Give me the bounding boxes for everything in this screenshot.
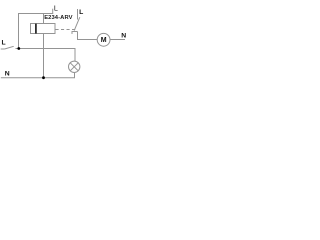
svg-text:E234-ARV: E234-ARV bbox=[44, 15, 72, 21]
background bbox=[0, 0, 127, 85]
svg-text:L: L bbox=[2, 39, 6, 46]
lamp cross bbox=[70, 63, 78, 71]
svg-text:N: N bbox=[121, 33, 126, 40]
wire lamp bottom drop bbox=[74, 72, 76, 78]
contact blade (timer NO contact) bbox=[74, 17, 80, 30]
push button stub bbox=[1, 48, 5, 50]
lamp E1 circle bbox=[69, 61, 80, 72]
motor M1 circle bbox=[97, 33, 110, 46]
wire coil bottom pin bbox=[43, 34, 45, 79]
wire N line bbox=[1, 77, 75, 79]
svg-text:M: M bbox=[101, 37, 107, 44]
wire pole to lamp elbow bbox=[16, 49, 76, 62]
svg-text:L: L bbox=[54, 3, 58, 12]
wire L terminal tick bbox=[52, 9, 54, 14]
wire left vertical drop bbox=[18, 13, 20, 49]
wire motor to N bbox=[110, 39, 125, 41]
wire contact bottom terminal bbox=[77, 32, 79, 41]
coil divider bar bbox=[35, 24, 37, 34]
wire contact top terminal bbox=[77, 9, 79, 20]
relay coil K1 (E234-ARV timer) body bbox=[31, 24, 56, 34]
push button blade bbox=[5, 46, 14, 49]
contact fixed hook bbox=[72, 32, 78, 35]
svg-text:N: N bbox=[5, 70, 10, 77]
junction dot A bbox=[17, 47, 20, 50]
svg-text:L: L bbox=[79, 9, 83, 16]
wire contact to motor bbox=[77, 39, 97, 41]
wire top bus horizontal bbox=[18, 13, 53, 15]
junction dot B bbox=[42, 76, 45, 79]
wire coil top pin bbox=[43, 13, 45, 24]
mechanical link dashed bbox=[56, 29, 76, 31]
